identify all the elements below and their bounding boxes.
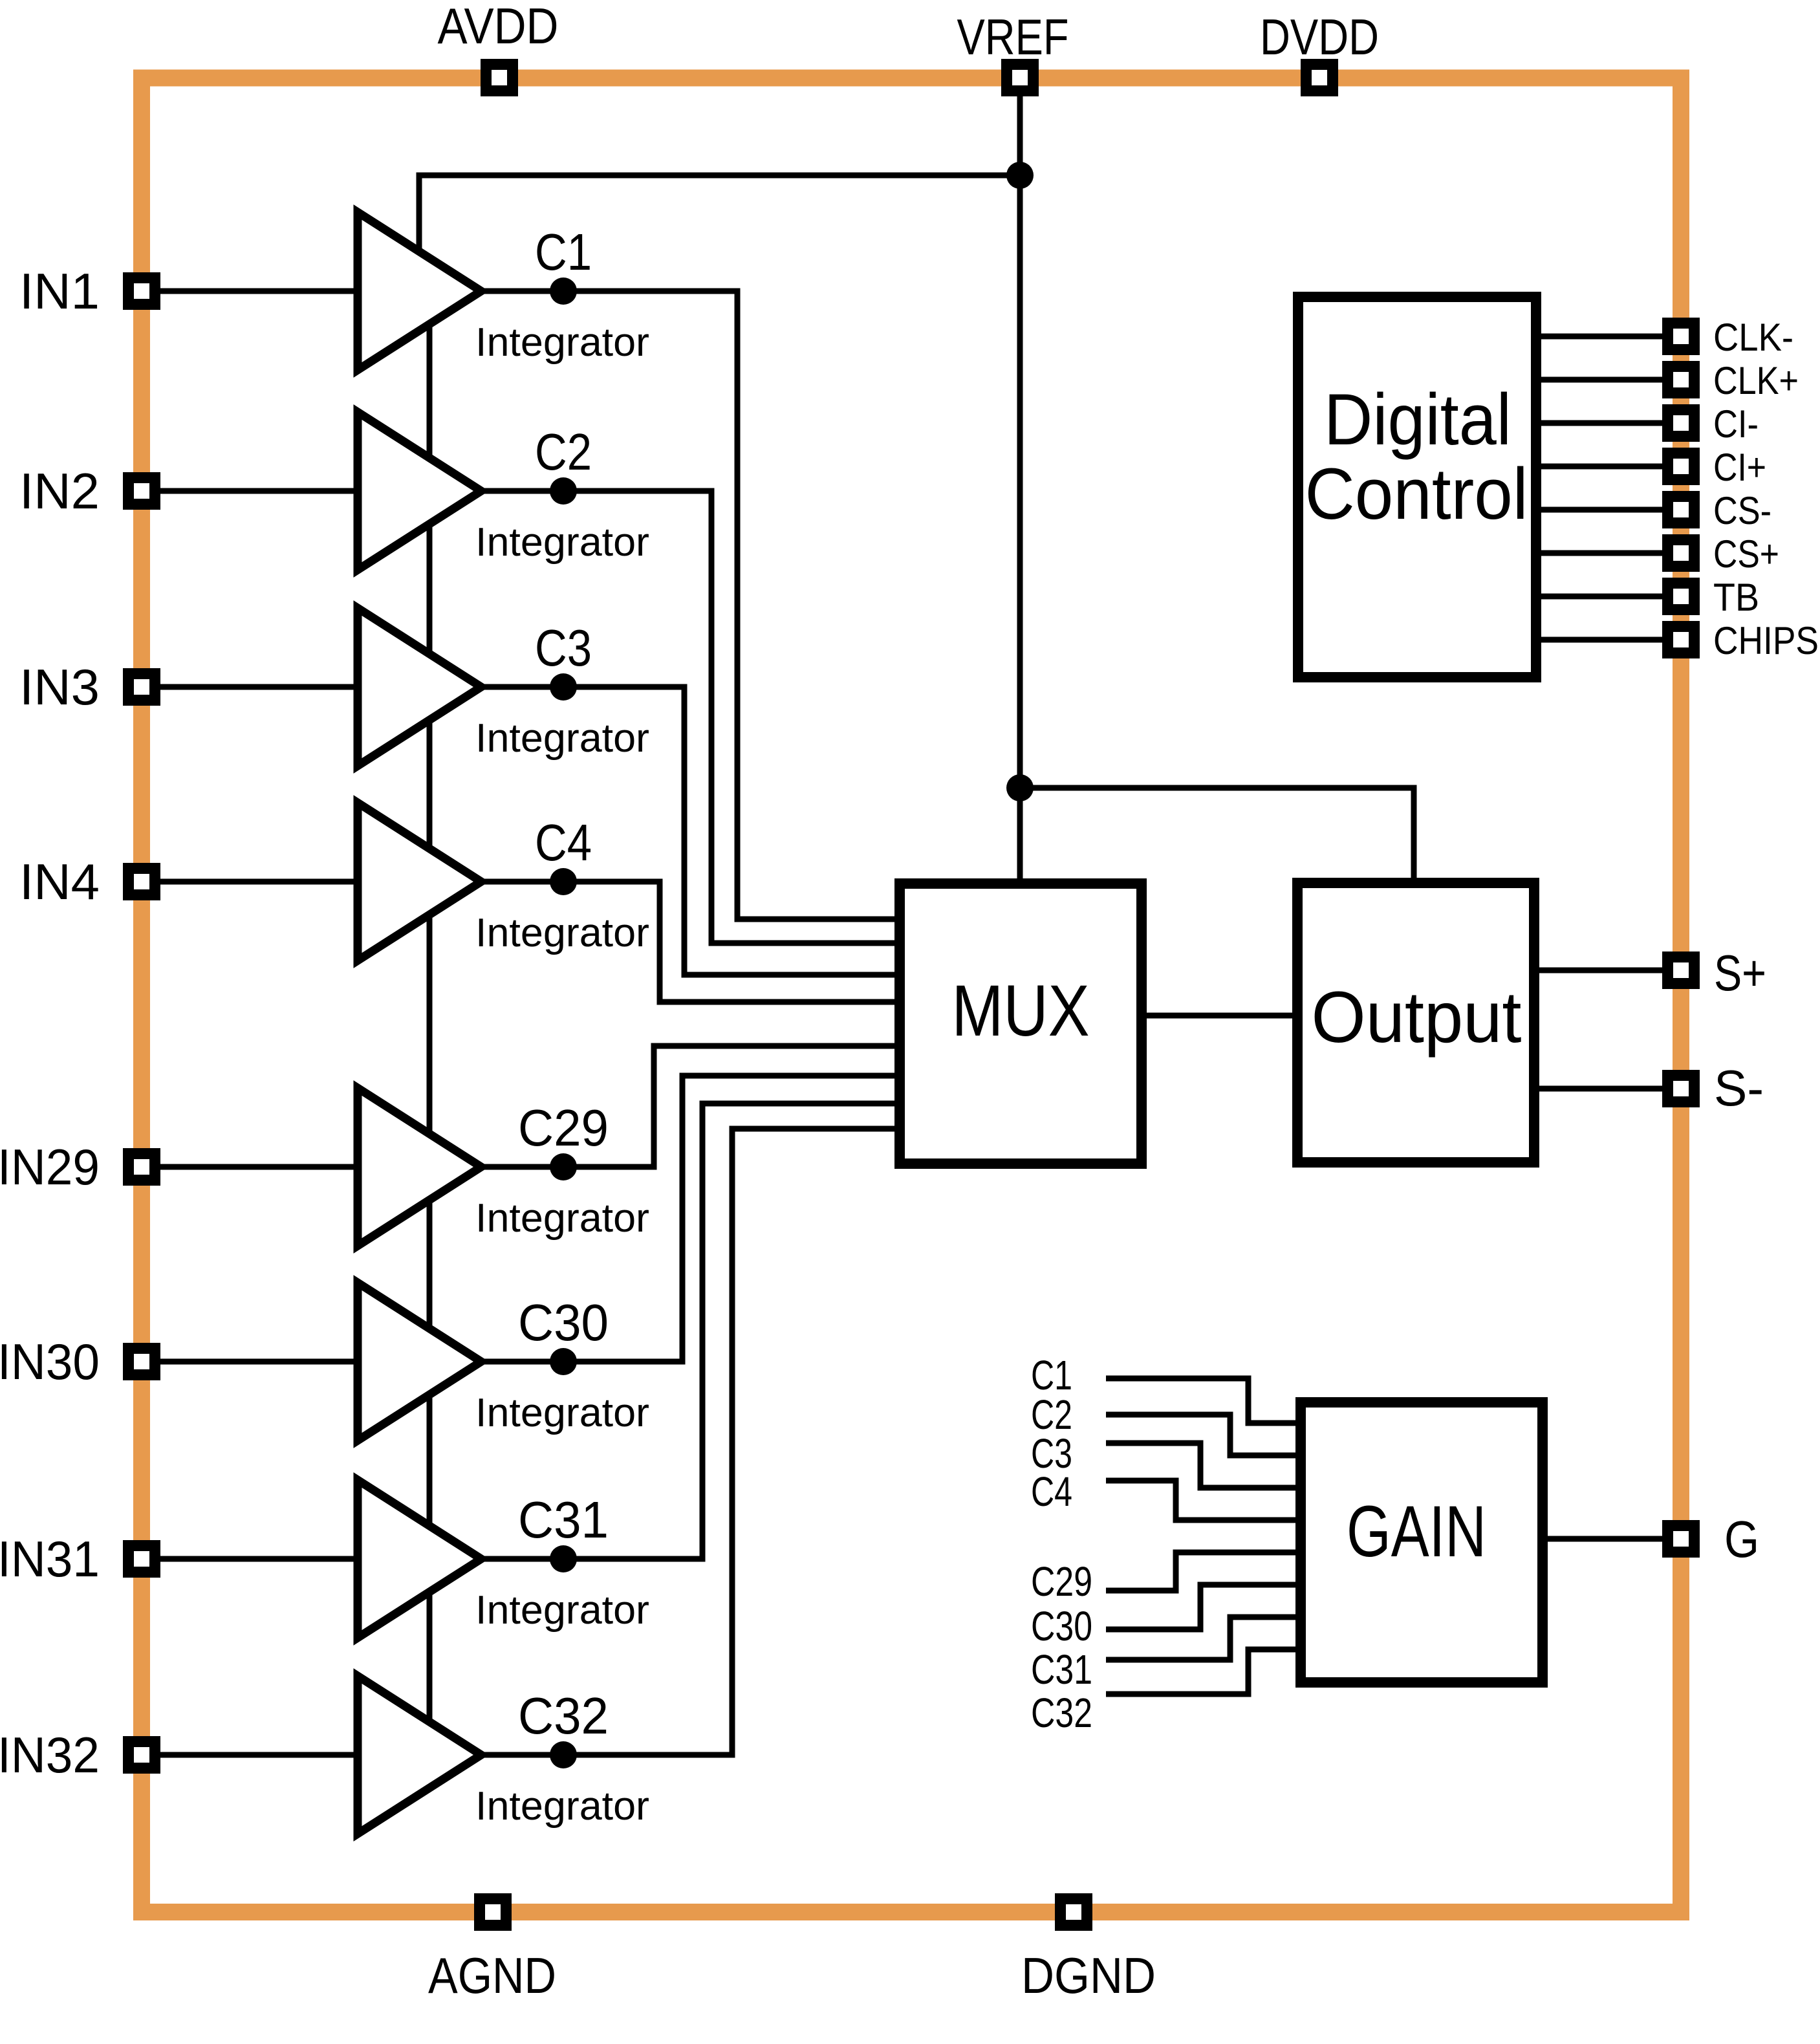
svg-text:IN29: IN29 (0, 1138, 100, 1195)
wire Digital Control to CI+ pin (1536, 464, 1681, 470)
pin CS- (1662, 491, 1700, 528)
svg-text:G: G (1724, 1510, 1759, 1568)
wire Output to S+ pin (1534, 968, 1681, 973)
wire IN3 pin to integrator input (142, 684, 358, 690)
wire IN4 pin to integrator input (142, 879, 358, 885)
wire C2 node from integrator output to MUX input (481, 491, 900, 943)
wire IN2 pin to integrator input (142, 488, 358, 494)
pin CI- (1662, 404, 1700, 442)
pin CI+ (1662, 448, 1700, 485)
op-amp integrator for IN31 (358, 1480, 481, 1638)
svg-text:C4: C4 (1031, 1468, 1072, 1515)
svg-text:Integrator: Integrator (475, 911, 649, 955)
svg-text:C4: C4 (535, 814, 592, 871)
svg-text:Output: Output (1312, 977, 1522, 1058)
svg-text:Integrator: Integrator (475, 1784, 649, 1829)
node C31 (550, 1545, 577, 1572)
wire VREF top branch to integrator supply bus (419, 175, 1020, 291)
svg-text:IN30: IN30 (0, 1333, 100, 1390)
wire C31 node from integrator output to MUX input (481, 1104, 900, 1559)
wire C29 node from integrator output to MUX input (481, 1046, 900, 1167)
node C3 (550, 673, 577, 701)
pin IN29 (123, 1148, 160, 1186)
block GAIN U4 (1301, 1402, 1543, 1682)
svg-text:C29: C29 (1031, 1558, 1092, 1605)
svg-text:IN3: IN3 (19, 658, 100, 715)
wire VREF vertical from VREF pin down to MUX top (1017, 78, 1023, 884)
wire VREF branch to Output block (1020, 788, 1414, 883)
wire gain-select C29 into GAIN block (1106, 1552, 1301, 1591)
wire IN31 pin to integrator input (142, 1556, 358, 1562)
svg-text:CS-: CS- (1713, 489, 1771, 532)
wire Digital Control to CI- pin (1536, 420, 1681, 426)
pin CS+ (1662, 534, 1700, 572)
pin IN30 (123, 1343, 160, 1380)
op-amp integrator for IN32 (358, 1676, 481, 1834)
svg-text:AVDD: AVDD (438, 0, 559, 54)
wire gain-select C1 into GAIN block (1106, 1378, 1301, 1423)
wire gain-select C30 into GAIN block (1106, 1585, 1301, 1629)
wire Digital Control to CLK+ pin (1536, 377, 1681, 383)
wire C1 node from integrator output to MUX input (481, 291, 900, 919)
svg-text:GAIN: GAIN (1347, 1491, 1486, 1572)
node C1 (550, 277, 577, 305)
pin G (1662, 1520, 1700, 1558)
wire C30 node from integrator output to MUX input (481, 1076, 900, 1362)
pin CLK+ (1662, 361, 1700, 398)
svg-text:C32: C32 (518, 1687, 609, 1745)
svg-text:CLK+: CLK+ (1713, 359, 1799, 402)
svg-text:Digital: Digital (1324, 379, 1511, 460)
node C4 (550, 868, 577, 895)
wire Digital Control to CS- pin (1536, 507, 1681, 513)
svg-text:VREF: VREF (957, 8, 1069, 65)
pin S- (1662, 1070, 1700, 1107)
svg-text:Integrator: Integrator (475, 320, 649, 365)
pin IN4 (123, 863, 160, 900)
svg-text:IN31: IN31 (0, 1530, 100, 1587)
wire gain-select C31 into GAIN block (1106, 1617, 1301, 1660)
pin VREF (1001, 59, 1039, 96)
svg-text:Integrator: Integrator (475, 1391, 649, 1435)
svg-text:C30: C30 (1031, 1603, 1092, 1649)
svg-text:IN2: IN2 (19, 462, 100, 519)
wire IN1 pin to integrator input (142, 288, 358, 294)
block Digital Control U1 (1298, 297, 1536, 677)
wire gain-select C2 into GAIN block (1106, 1415, 1301, 1455)
svg-text:C31: C31 (518, 1491, 609, 1549)
op-amp integrator for IN3 (358, 608, 481, 766)
pin AVDD (481, 59, 518, 96)
svg-text:C1: C1 (535, 223, 592, 281)
wire IN32 pin to integrator input (142, 1752, 358, 1758)
chip boundary (orange supply ring) (142, 78, 1681, 1913)
op-amp integrator for IN1 (358, 212, 481, 370)
op-amp integrator for IN2 (358, 412, 481, 570)
node C32 (550, 1741, 577, 1768)
pin IN2 (123, 472, 160, 510)
svg-text:CI-: CI- (1713, 402, 1759, 446)
svg-text:IN32: IN32 (0, 1726, 100, 1783)
wire C4 node from integrator output to MUX input (481, 882, 900, 1002)
wire Digital Control to CHIPS pin (1536, 637, 1681, 643)
svg-text:Integrator: Integrator (475, 1196, 649, 1241)
svg-text:C31: C31 (1031, 1646, 1092, 1693)
block Output U3 (1297, 883, 1534, 1162)
wire IN29 pin to integrator input (142, 1164, 358, 1170)
svg-text:CI+: CI+ (1713, 446, 1766, 489)
pin IN1 (123, 272, 160, 310)
op-amp integrator for IN4 (358, 803, 481, 961)
wire C32 node from integrator output to MUX input (481, 1129, 900, 1755)
pin AGND (474, 1893, 512, 1931)
pin DGND (1055, 1893, 1092, 1931)
svg-text:Integrator: Integrator (475, 520, 649, 565)
svg-text:MUX: MUX (952, 970, 1090, 1051)
svg-text:Integrator: Integrator (475, 1588, 649, 1633)
wire IN30 pin to integrator input (142, 1359, 358, 1365)
svg-text:IN1: IN1 (19, 263, 100, 320)
svg-text:TB: TB (1713, 576, 1759, 619)
wire Digital Control to CS+ pin (1536, 550, 1681, 556)
wire MUX output to Output block (1142, 1013, 1297, 1019)
node VREF junction (top) (1006, 162, 1034, 189)
pin IN31 (123, 1540, 160, 1578)
wire Digital Control to TB pin (1536, 594, 1681, 600)
svg-text:DVDD: DVDD (1260, 8, 1379, 65)
svg-text:DGND: DGND (1021, 1947, 1156, 2004)
node C2 (550, 477, 577, 505)
op-amp integrator for IN29 (358, 1088, 481, 1246)
svg-text:Integrator: Integrator (475, 716, 649, 761)
wire Digital Control to CLK- pin (1536, 334, 1681, 340)
svg-text:S-: S- (1714, 1060, 1764, 1116)
svg-text:C2: C2 (535, 423, 592, 481)
pin S+ (1662, 951, 1700, 989)
wire gain-select C32 into GAIN block (1106, 1649, 1301, 1694)
wire C3 node from integrator output to MUX input (481, 687, 900, 975)
pin IN3 (123, 668, 160, 706)
svg-text:C32: C32 (1031, 1690, 1092, 1736)
svg-text:S+: S+ (1714, 944, 1766, 1001)
wire Output to S- pin (1534, 1086, 1681, 1092)
wire VREF bus feeding all integrators (behind triangles) (427, 294, 433, 1755)
wire gain-select C3 into GAIN block (1106, 1443, 1301, 1488)
svg-text:CLK-: CLK- (1713, 316, 1793, 359)
svg-text:C29: C29 (518, 1099, 609, 1157)
node C30 (550, 1348, 577, 1375)
wire gain-select C4 into GAIN block (1106, 1481, 1301, 1520)
svg-text:C3: C3 (535, 619, 592, 677)
svg-text:Control: Control (1305, 453, 1528, 534)
wire GAIN output to G pin (1543, 1536, 1681, 1542)
pin TB (1662, 578, 1700, 615)
svg-text:CS+: CS+ (1713, 532, 1779, 576)
node VREF junction (to Output) (1006, 774, 1034, 801)
svg-text:CHIPS: CHIPS (1713, 619, 1819, 662)
pin CHIPS (1662, 621, 1700, 658)
node C29 (550, 1153, 577, 1180)
svg-text:C30: C30 (518, 1294, 609, 1351)
svg-text:AGND: AGND (428, 1947, 556, 2004)
block MUX U2 (900, 884, 1142, 1164)
op-amp integrator for IN30 (358, 1283, 481, 1441)
pin DVDD (1301, 59, 1338, 96)
svg-text:IN4: IN4 (19, 853, 100, 910)
pin CLK- (1662, 318, 1700, 355)
pin IN32 (123, 1736, 160, 1774)
